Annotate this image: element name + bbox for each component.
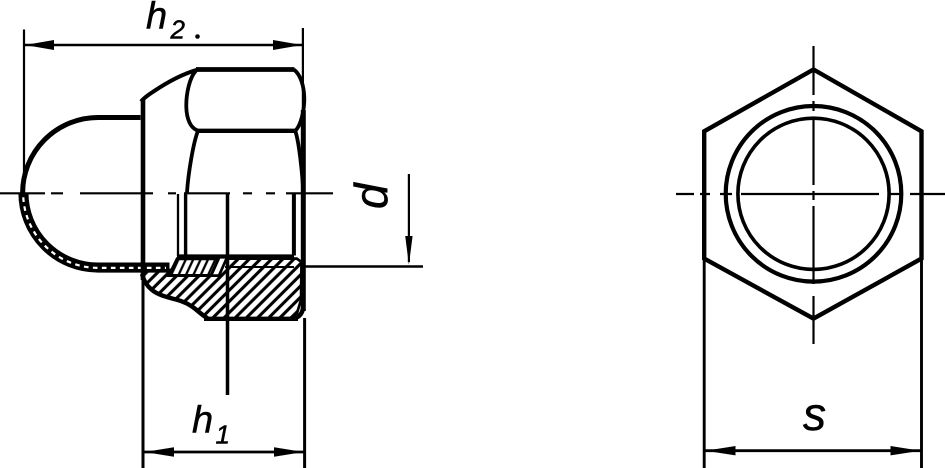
cap to hex transition curve (141, 70, 197, 102)
right end face vertical (301, 110, 306, 311)
hex top-right chamfer arc (294, 70, 304, 131)
dimension s left arrowhead (706, 446, 736, 455)
centerline axis left view (0, 192, 333, 194)
right view horizontal centerline (676, 193, 945, 195)
label h2 dot (195, 34, 200, 39)
section boundary curve (cap crimp edge) (142, 274, 208, 318)
dimension d arrow line (408, 174, 410, 262)
dimension h2 line (24, 44, 303, 47)
dimension h1 line (144, 451, 305, 454)
svg-text:h: h (192, 400, 213, 442)
dimension s right arrowhead (891, 446, 921, 455)
hex mid-left face edge arc (187, 131, 198, 194)
dimension h1 right extension line (303, 318, 306, 468)
dimension h2 right arrowhead (273, 40, 302, 50)
hex top-left chamfer arc (186, 70, 198, 131)
svg-text:h: h (146, 0, 167, 38)
white dashed mid-line of cap shell (23, 193, 166, 268)
dimension h2 right extension line (302, 28, 304, 112)
bottom right corner (294, 306, 303, 319)
cap step vertical edge (141, 100, 146, 281)
dimension d arrowhead (405, 236, 412, 265)
dimension s right extension line (920, 259, 923, 468)
thread hole minor diameter line (177, 254, 294, 258)
dimension h2 left arrowhead (25, 40, 54, 50)
nylon insert ring section (169, 259, 219, 276)
thread end right vertical (292, 194, 296, 256)
svg-text:1: 1 (216, 420, 230, 450)
dimension h1 right arrowhead (274, 447, 304, 456)
outer chamfer circle (726, 106, 902, 282)
svg-text:2: 2 (170, 15, 186, 45)
hex top flat (196, 67, 295, 72)
hex mid-right face edge arc (295, 131, 303, 194)
thread end left thin vertical (177, 194, 179, 256)
dome upper arc (23, 118, 141, 194)
right view vertical centerline (812, 46, 814, 344)
thread end left thick vertical (184, 194, 187, 257)
cap shell skirt band (blackened thin section) (23, 193, 169, 268)
svg-text:s: s (803, 388, 826, 440)
body section hatch region (143, 259, 302, 319)
thread major diameter thin line (in section) (225, 266, 294, 268)
svg-text:d: d (345, 182, 397, 209)
hex edge line (198, 129, 295, 133)
bottom face of section (204, 317, 298, 321)
hexagon outline (704, 70, 921, 319)
dimension d extension line (major dia extended) (302, 265, 423, 267)
inner dome circle (738, 118, 889, 269)
dimension h2 left extension line (23, 30, 25, 197)
dimension h1 left arrowhead (145, 447, 175, 456)
dimension s left extension line (703, 259, 706, 468)
dimension s line (705, 449, 921, 452)
hole center leader vertical (226, 194, 230, 395)
dimension h1 left extension line (142, 280, 145, 468)
